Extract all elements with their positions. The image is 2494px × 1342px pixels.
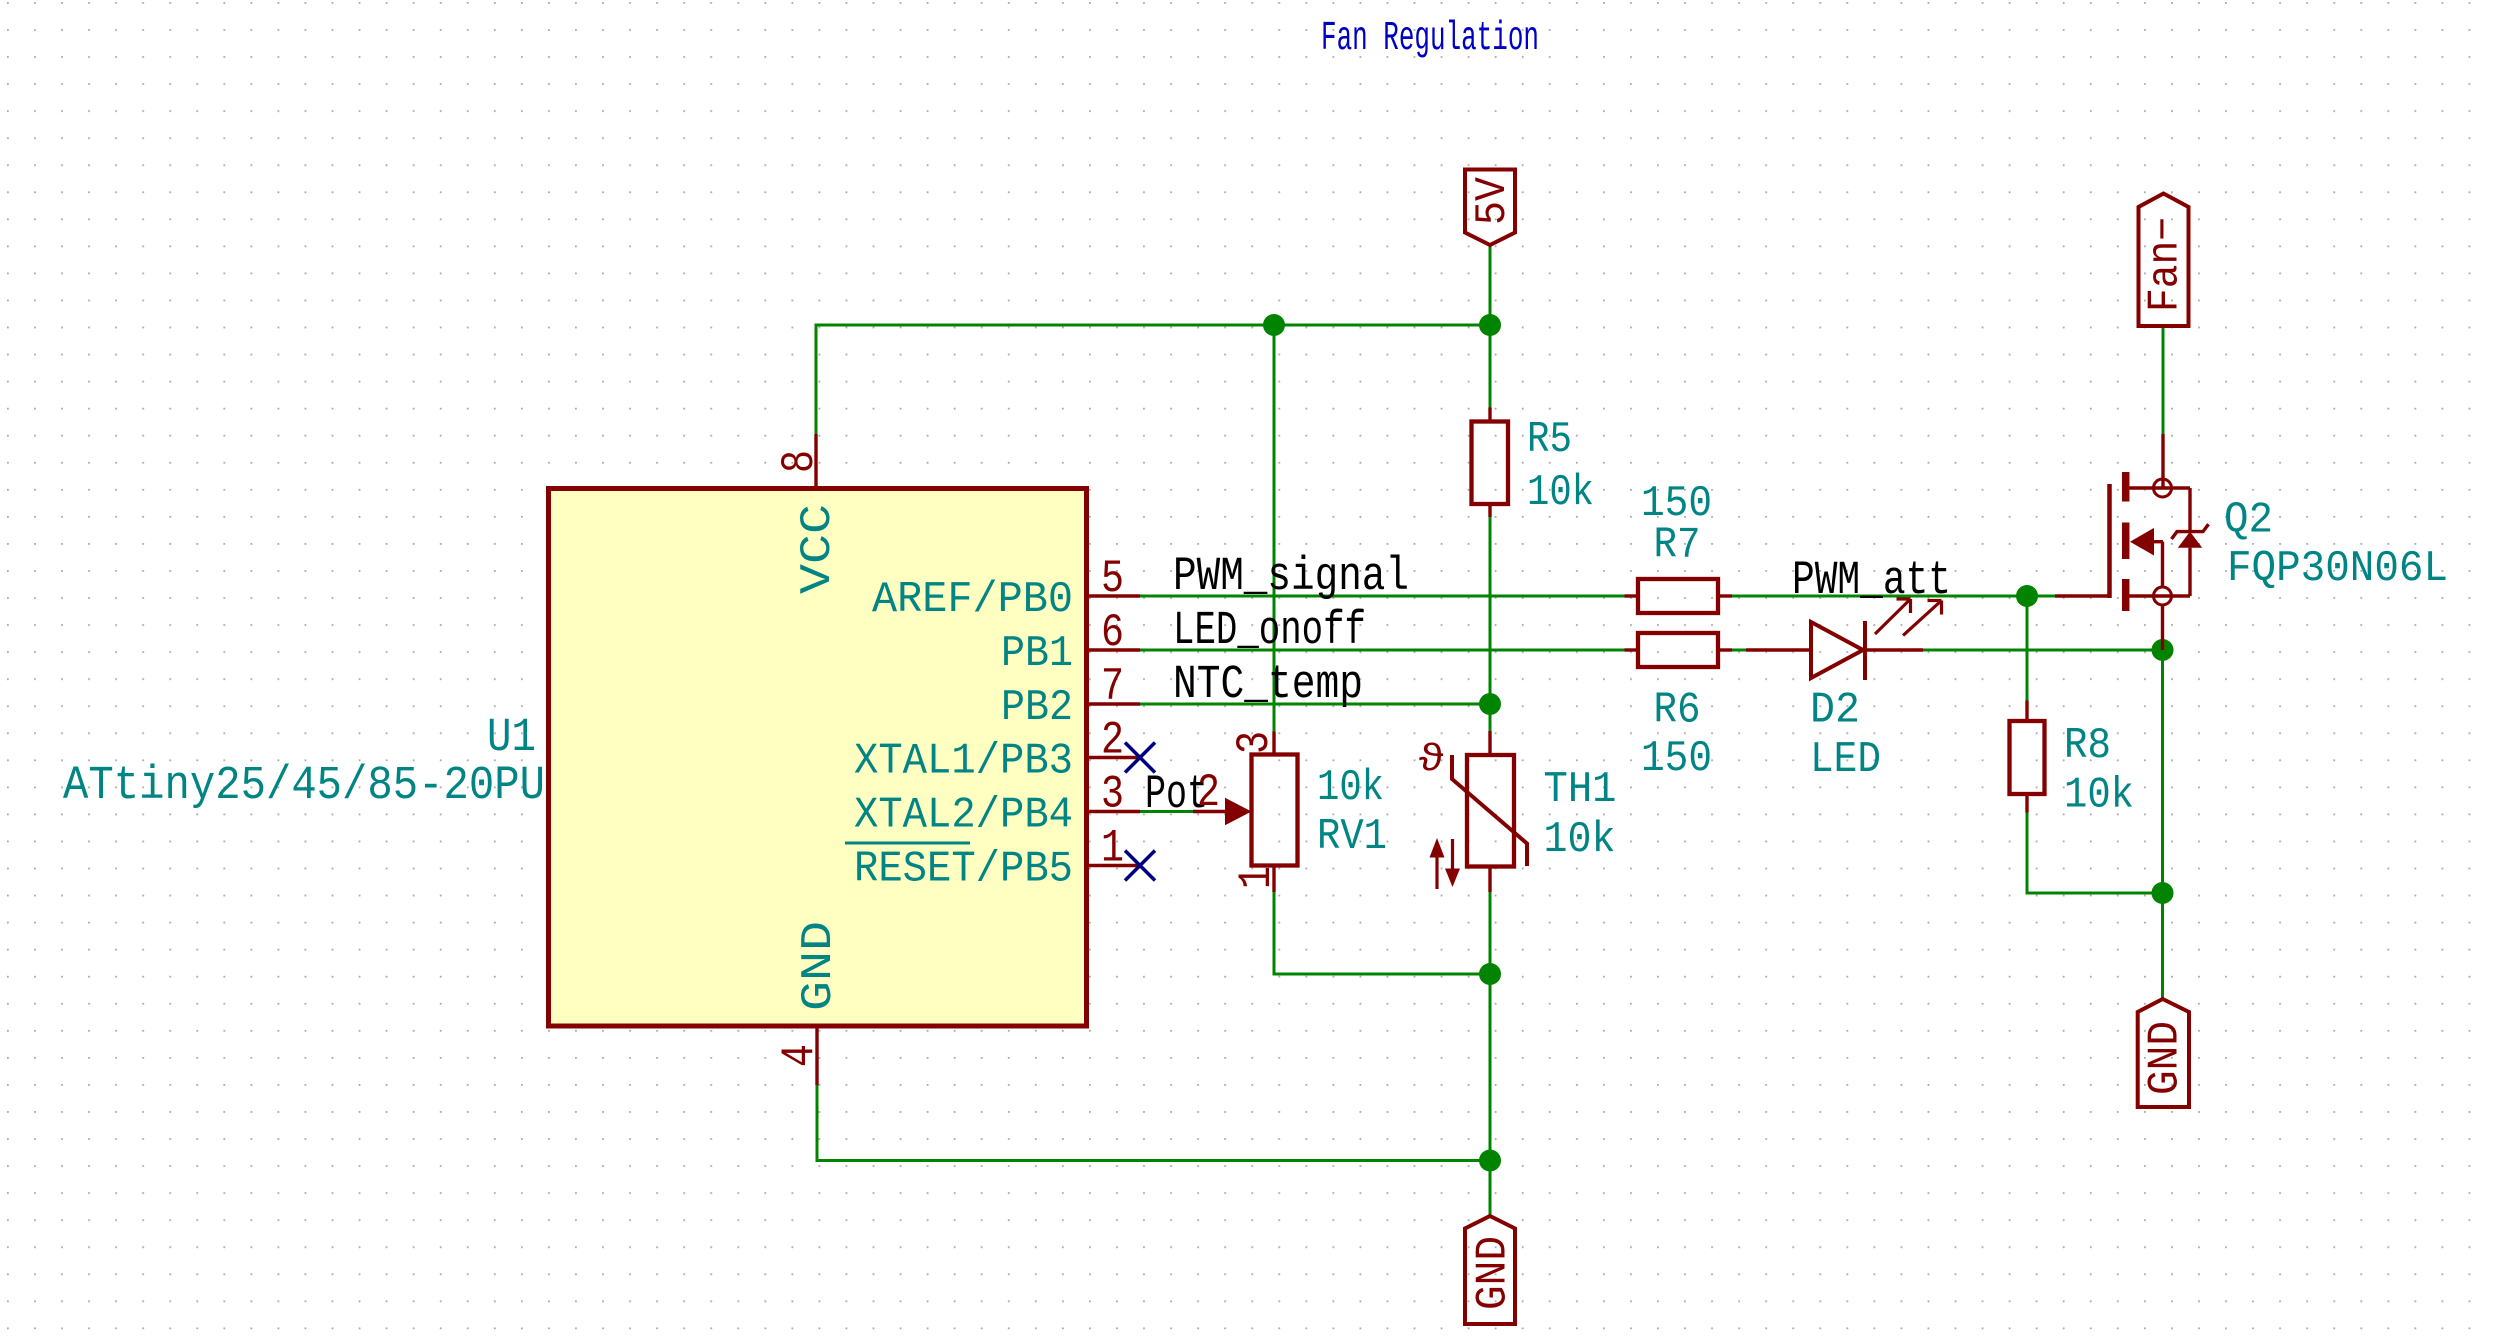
svg-text:3: 3 [1229,731,1281,754]
svg-text:PWM_att: PWM_att [1792,555,1951,608]
resistor R5 [1472,408,1509,518]
svg-text:1: 1 [1231,866,1283,889]
pin 2 stub [1087,756,1140,759]
Q2 drain circle [2154,479,2172,497]
svg-text:RESET/PB5: RESET/PB5 [854,845,1073,895]
wire R6 to D2 anode [1732,649,1746,652]
wire PWM_signal row pin5 to R7 [1140,595,1625,598]
wire D2 cathode to Q2 source node [1923,649,2163,652]
svg-text:ATtiny25/45/85-20PU: ATtiny25/45/85-20PU [63,760,545,813]
wire R8 bottom to source net [2026,892,2163,895]
svg-text:GND: GND [794,921,844,1011]
pin 1 stub [1087,864,1140,867]
wire U1 pin4 down [816,1085,819,1162]
svg-text:R7: R7 [1654,521,1701,571]
junction 5V rail / RV1 branch [1263,314,1285,336]
svg-text:VCC: VCC [793,504,843,594]
pin name RESET/PB5 with overline [845,843,1073,895]
pin 7 stub [1087,702,1140,705]
svg-text:NTC_temp: NTC_temp [1173,659,1363,712]
svg-text:1: 1 [1101,823,1124,875]
wire 5V symbol stem [1489,245,1492,325]
wire VCC drop to U1 pin 8 [815,325,818,435]
pin 8 VCC stub [814,434,817,488]
svg-text:LED: LED [1810,735,1881,785]
svg-text:3: 3 [1101,769,1124,821]
junction R8 bottom / source net [2152,882,2174,904]
svg-text:2: 2 [1197,767,1220,819]
wire NTC_temp row pin7 to junction [1140,703,1490,706]
svg-text:PWM_signal: PWM_signal [1173,551,1409,604]
svg-text:GND: GND [2141,1021,2191,1095]
junction RV1/TH1 bottom [1479,963,1501,985]
no-connect X pin 2 [1125,743,1155,773]
svg-text:RV1: RV1 [1317,812,1387,862]
wire R7 to PWM_att node [1732,595,2055,598]
TH1 temperature arrows [1430,838,1461,889]
svg-text:AREF/PB0: AREF/PB0 [872,575,1073,625]
svg-text:10k: 10k [1544,815,1616,865]
wire pin3 Pot row [1140,810,1193,813]
power flag GND right [2138,999,2189,1107]
svg-text:Q2: Q2 [2224,496,2273,546]
wire PWM_att node down to R8 [2026,596,2029,701]
svg-text:Fan Regulation: Fan Regulation [1321,16,1539,62]
Q2 zener bar [2172,524,2209,539]
Q2 body diode anode side [2188,548,2191,596]
wire 5V rail to R5 top [1489,325,1492,408]
wire R8 bottom drop [2026,812,2029,895]
thermistor TH1 [1452,731,1527,892]
svg-text:R5: R5 [1527,415,1572,465]
svg-text:10k: 10k [1527,468,1594,518]
svg-text:4: 4 [774,1044,826,1067]
wire 5V rail horizontal [815,324,1492,327]
svg-text:10k: 10k [2064,771,2134,821]
MOSFET Q2 FQP30N06L [2055,434,2209,650]
resistor R8 [2010,701,2045,813]
wire LED_onoff row pin6 to R6 [1140,649,1625,652]
svg-text:R6: R6 [1654,686,1701,736]
wire RV1 bottom drop [1273,892,1276,974]
wire Q2 source node down to GND [2161,650,2164,1001]
power symbol 5V [1465,170,1515,246]
junction PWM_att node [2016,585,2038,607]
svg-text:PB1: PB1 [1001,629,1073,679]
IC U1 ATtiny25/45/85-20PU body [549,489,1087,1027]
Q2 drain internal link [2127,486,2190,489]
resistor R7 (horizontal) [1625,579,1733,613]
Q2 source circle [2154,587,2172,605]
pin 3 stub [1087,810,1140,813]
D2 emission arrows [1875,599,1942,636]
svg-text:5: 5 [1101,553,1124,605]
Q2 gate pin [2055,594,2110,597]
LED D2 [1746,621,1923,680]
Q2 gate bar [2107,484,2112,598]
Q2 body diode cathode side [2188,488,2191,532]
svg-text:8: 8 [774,450,826,473]
wire Fan- to Q2 drain [2162,326,2165,434]
svg-text:XTAL1/PB3: XTAL1/PB3 [854,737,1073,787]
junction Q2 source / LED row [2152,639,2174,661]
Q2 bulk arrow [2130,528,2154,556]
Q2 channel bar bottom [2122,579,2130,611]
power flag GND bottom center [1465,1216,1515,1324]
svg-text:2: 2 [1101,715,1124,767]
pin 6 stub [1087,648,1140,651]
Q2 drain pin [2161,434,2164,488]
svg-text:XTAL2/PB4: XTAL2/PB4 [854,791,1073,841]
svg-text:6: 6 [1101,607,1124,659]
svg-text:FQP30N06L: FQP30N06L [2227,544,2448,594]
Q2 bulk link [2153,540,2163,543]
svg-text:PB2: PB2 [1001,683,1073,733]
Q2 source row internal [2127,594,2190,597]
wire 5V rail to RV1 pin 3 [1273,325,1276,732]
wire GND row bottom [816,1159,1491,1162]
svg-text:ϑ: ϑ [1418,739,1445,782]
Q2 body diode triangle [2178,532,2202,548]
svg-text:Fan−: Fan− [2141,217,2191,312]
svg-text:10k: 10k [1317,763,1384,813]
svg-text:R8: R8 [2064,721,2111,771]
wire R5 bottom to TH1 top [1489,517,1492,731]
svg-text:GND: GND [1469,1236,1519,1310]
wire TH1 bottom to GND [1489,892,1492,1216]
Q2 source pin [2161,605,2164,650]
resistor R6 (horizontal) [1625,633,1733,667]
pin 5 stub [1087,594,1140,597]
global label Fan- [2139,194,2189,327]
svg-text:TH1: TH1 [1544,765,1617,815]
junction NTC row / R5-TH1 [1479,693,1501,715]
junction GND row / TH1 branch [1479,1150,1501,1172]
potentiometer RV1 [1193,732,1298,893]
svg-text:D2: D2 [1810,686,1860,736]
junction 5V rail / R5 [1479,314,1501,336]
svg-text:150: 150 [1641,734,1712,784]
pin 4 GND stub [815,1026,818,1085]
svg-text:7: 7 [1101,661,1124,713]
Q2 channel bar top [2122,472,2130,502]
svg-text:5V: 5V [1468,176,1518,225]
no-connect X pin 1 [1125,851,1155,881]
svg-text:U1: U1 [487,712,536,765]
svg-text:LED_onoff: LED_onoff [1173,605,1366,658]
wire RV1 bottom to TH1 net [1273,973,1491,976]
Q2 channel bar middle [2122,523,2130,560]
